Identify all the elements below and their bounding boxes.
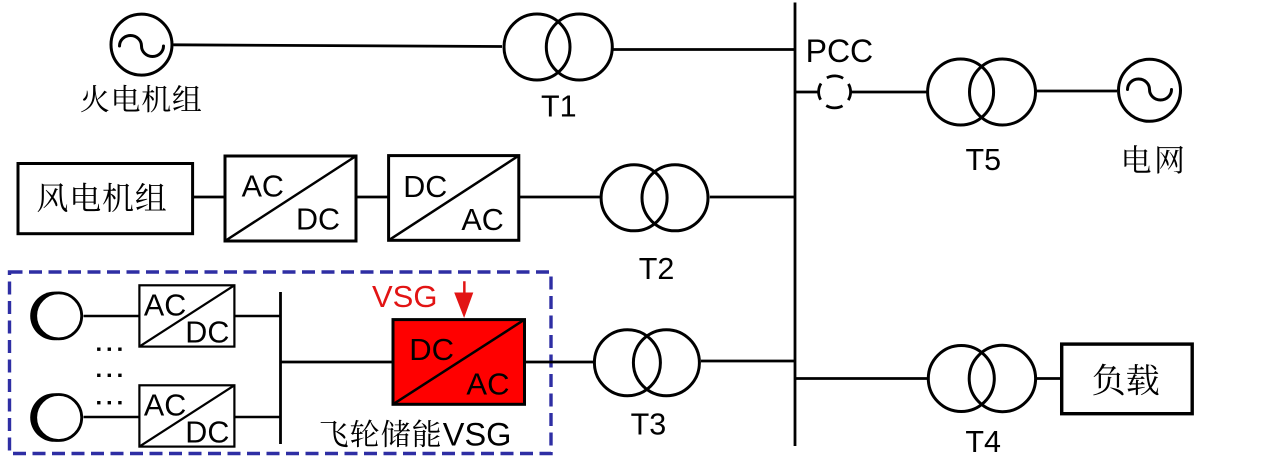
flywheel machine M2 xyxy=(30,393,79,442)
flywheel VSG dashed enclosure xyxy=(10,272,552,454)
svg-text:AC: AC xyxy=(461,203,503,237)
dc bus (flywheel collector) xyxy=(279,292,282,444)
generator G1 (thermal unit AC source) xyxy=(111,14,172,75)
wire M2-conv xyxy=(84,416,140,419)
label 飞轮储能VSG xyxy=(321,419,440,447)
converter DC/AC (wind inverter) xyxy=(389,156,519,241)
svg-text:DC: DC xyxy=(185,316,229,350)
svg-text:AC: AC xyxy=(466,367,509,402)
wire vsgconv-T3 xyxy=(525,361,594,364)
wire windbox-conv1 xyxy=(193,196,225,199)
wire dcbus-vsgconv xyxy=(281,361,394,364)
svg-text:AC: AC xyxy=(144,288,186,322)
wire conv2-dcbus xyxy=(234,416,280,419)
ellipsis dots (more units) xyxy=(97,348,100,351)
svg-text:T3: T3 xyxy=(631,408,667,442)
converter AC/DC (flywheel 1) xyxy=(139,285,234,346)
svg-text:AC: AC xyxy=(144,388,186,422)
label 负载 xyxy=(1093,364,1158,396)
wire M1-conv xyxy=(84,315,140,318)
svg-text:DC: DC xyxy=(185,416,229,450)
label 火电机组 xyxy=(81,85,201,113)
converter AC/DC (wind rectifier) xyxy=(225,156,356,241)
wire bus-breaker xyxy=(795,91,819,94)
svg-text:VSG: VSG xyxy=(372,279,437,314)
transformer T4 xyxy=(928,346,994,412)
wire T1-bus xyxy=(613,48,795,51)
svg-text:T2: T2 xyxy=(639,252,675,286)
svg-text:T4: T4 xyxy=(965,425,1001,459)
flywheel machine M1 xyxy=(30,292,79,341)
transformer T1 xyxy=(504,14,570,80)
wind unit box 风电机组 xyxy=(18,164,193,234)
svg-text:T1: T1 xyxy=(541,89,577,123)
svg-text:DC: DC xyxy=(403,170,447,204)
svg-text:DC: DC xyxy=(296,203,340,237)
svg-text:VSG: VSG xyxy=(443,417,512,453)
wire T3-bus xyxy=(701,360,795,363)
bus (PCC busbar) xyxy=(794,3,797,447)
label 风电机组 xyxy=(38,183,166,213)
wire breaker-T5 xyxy=(851,91,927,94)
wire conv2-T2 xyxy=(519,196,600,199)
transformer T5 xyxy=(928,59,994,125)
svg-text:AC: AC xyxy=(242,170,284,204)
transformer T3 xyxy=(594,330,660,396)
label 电网 xyxy=(1124,145,1183,173)
wire T2-bus xyxy=(710,196,795,199)
svg-text:PCC: PCC xyxy=(806,33,874,69)
converter DC/AC VSG (red) xyxy=(393,320,525,405)
svg-text:T5: T5 xyxy=(966,143,1002,177)
grid source (AC circle) xyxy=(1119,59,1181,121)
load box 负载 xyxy=(1062,344,1193,414)
wire conv1-dcbus xyxy=(234,315,280,318)
transformer T2 xyxy=(601,165,667,231)
red arrow (VSG pointer) xyxy=(454,281,473,318)
wire T4-load xyxy=(1037,377,1062,380)
wire G1-T1 xyxy=(174,45,503,47)
wire T5-grid xyxy=(1037,90,1118,93)
wire bus-T4 xyxy=(795,377,927,380)
wire conv1-conv2 xyxy=(356,196,389,199)
breaker (dashed circle) at PCC xyxy=(813,70,857,114)
svg-text:DC: DC xyxy=(409,332,454,367)
converter AC/DC (flywheel 2) xyxy=(139,385,234,446)
